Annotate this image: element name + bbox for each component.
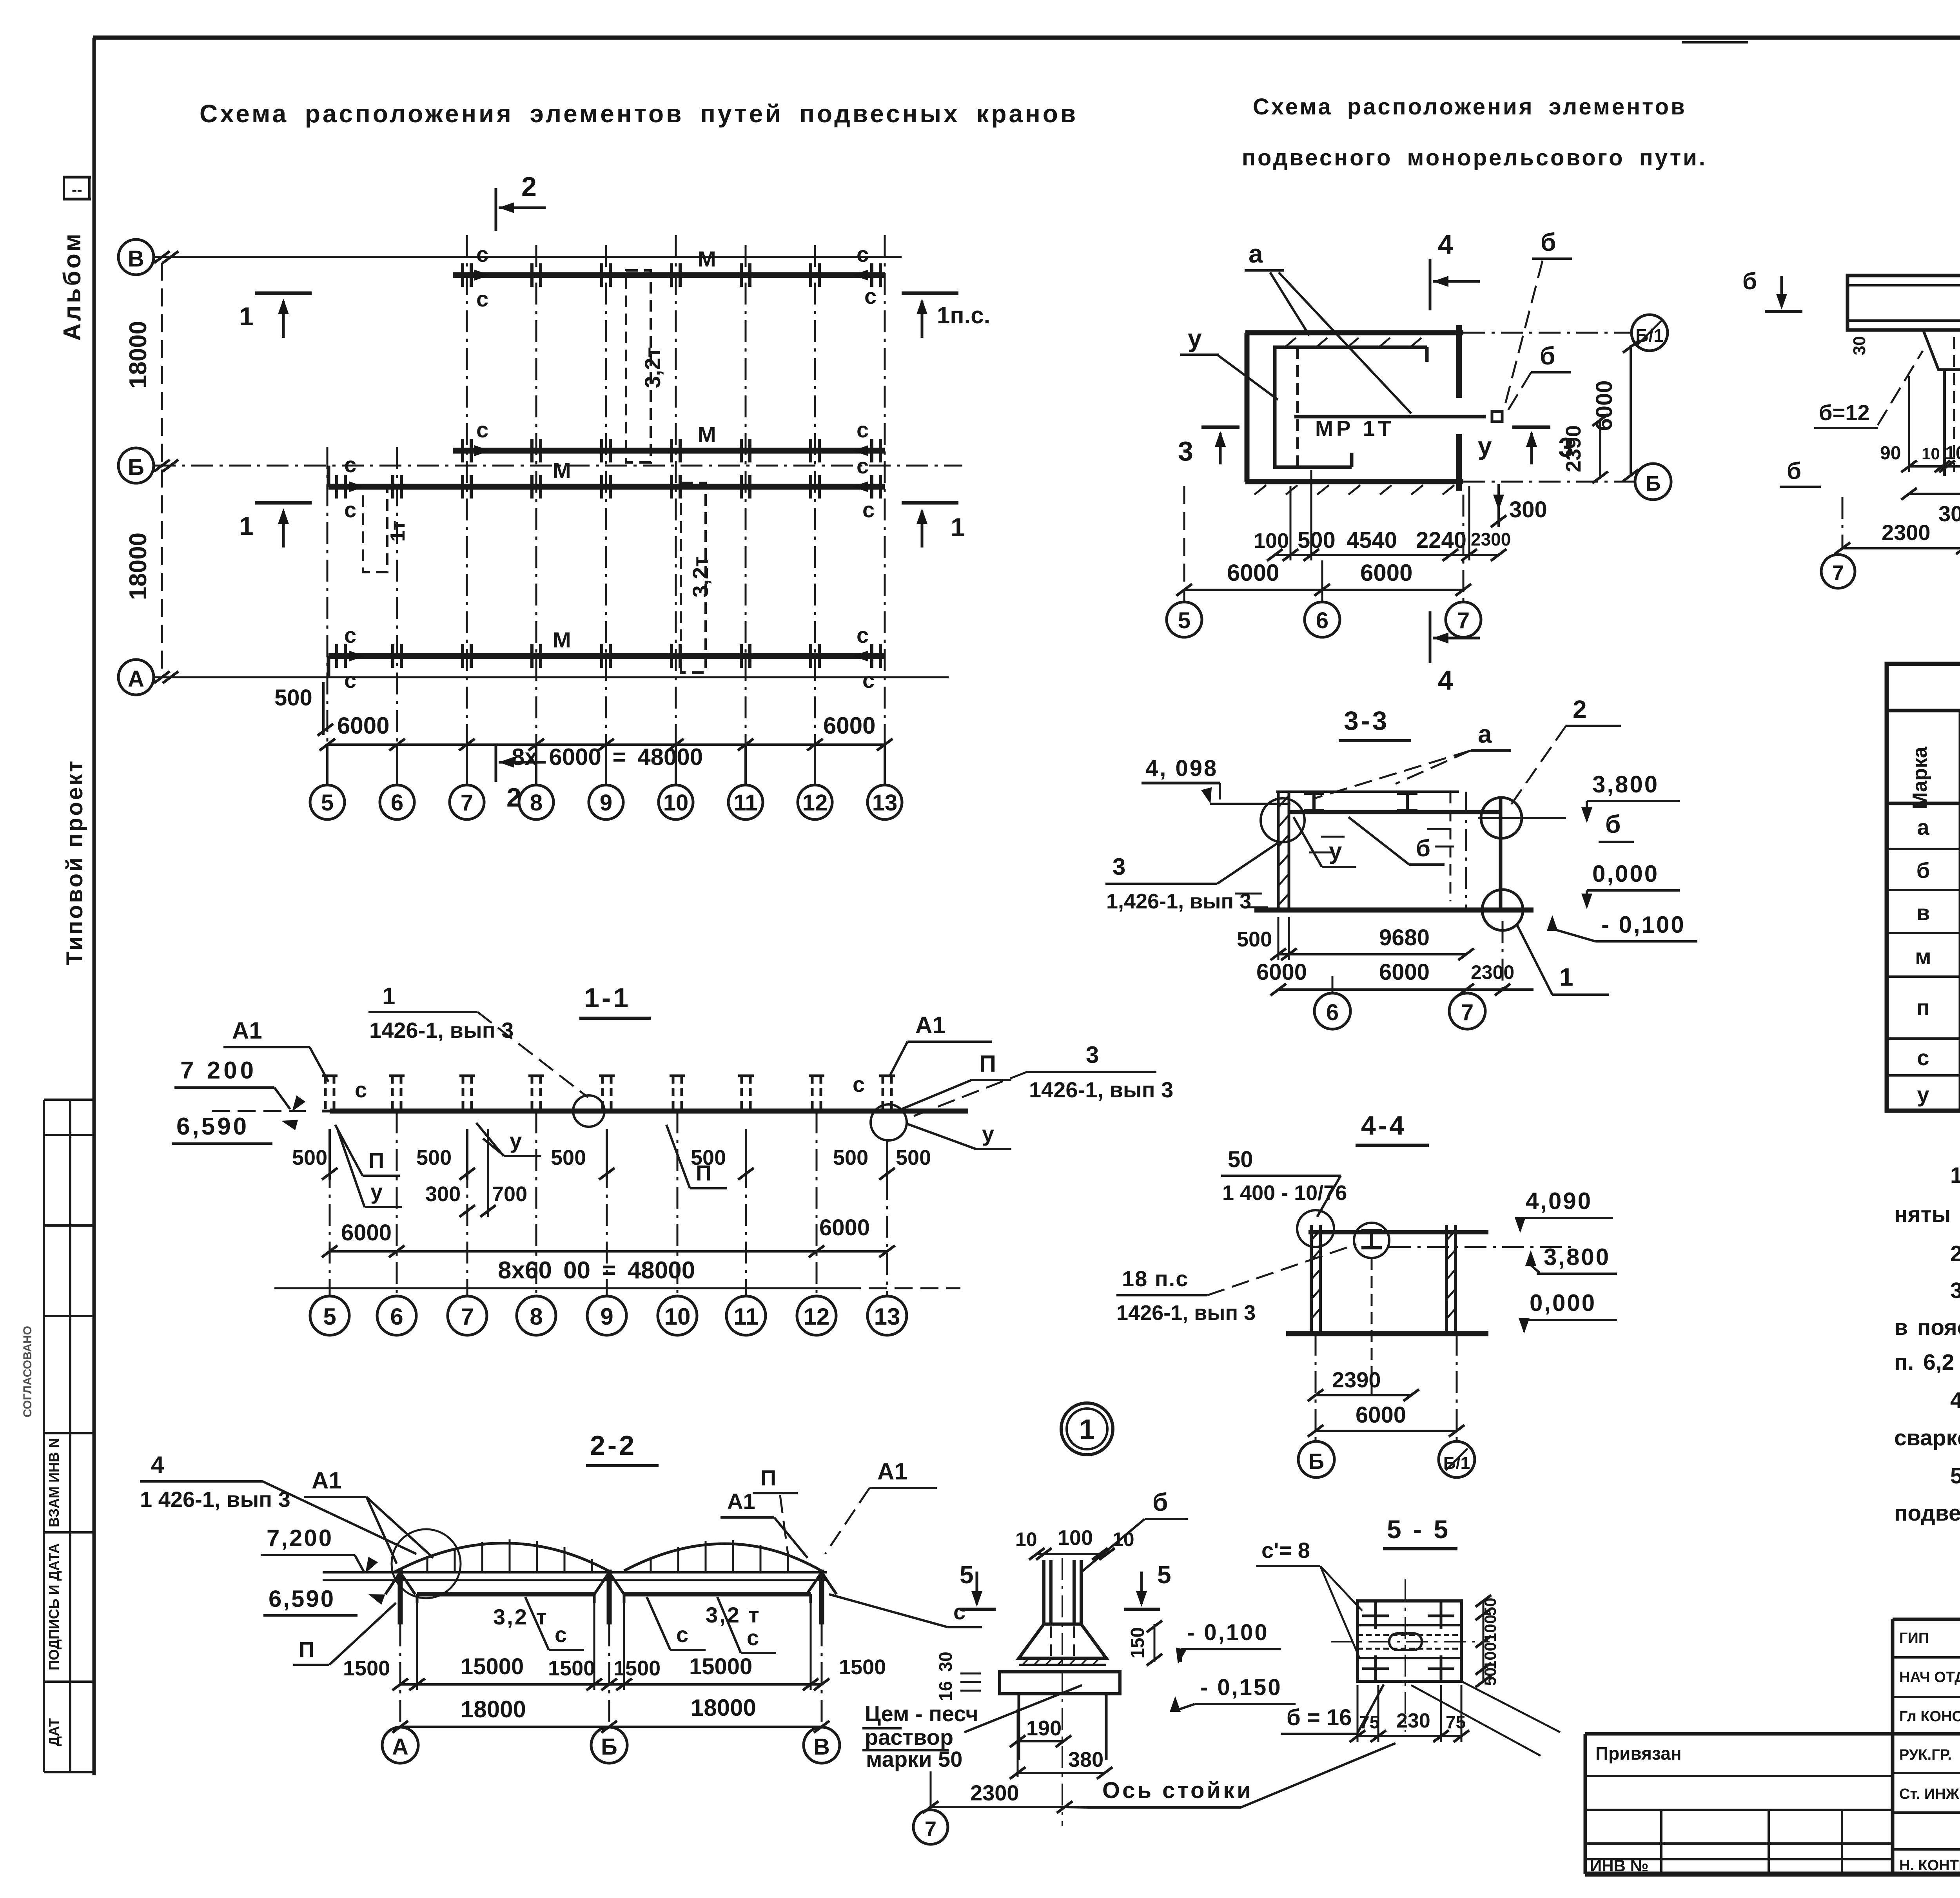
svg-text:Ст. ИНЖ: Ст. ИНЖ [1899, 1786, 1960, 1802]
svg-text:А1: А1 [232, 1017, 262, 1044]
svg-text:8: 8 [530, 1303, 543, 1330]
svg-text:8х 6000 = 48000: 8х 6000 = 48000 [512, 744, 703, 770]
svg-text:1: 1 [1559, 963, 1573, 991]
svg-text:6,590: 6,590 [269, 1586, 335, 1612]
svg-text:2390: 2390 [1332, 1367, 1381, 1392]
svg-text:1: 1 [382, 983, 395, 1009]
svg-text:16: 16 [935, 1681, 956, 1701]
svg-text:500: 500 [833, 1146, 868, 1169]
svg-text:4,090: 4,090 [1526, 1188, 1592, 1214]
svg-text:3. Указания по выбору сва: 3. Указания по выбору сварочных электрод… [1950, 1278, 1960, 1303]
svg-text:б: б [1541, 228, 1556, 256]
svg-text:9680: 9680 [1379, 925, 1430, 950]
svg-text:1 Сечения подвесных крановых: 1 Сечения подвесных крановых путей и мон… [1950, 1163, 1960, 1188]
svg-text:500: 500 [551, 1146, 586, 1169]
svg-text:10: 10 [1112, 1528, 1134, 1550]
svg-text:ИНВ №: ИНВ № [1590, 1856, 1648, 1875]
svg-text:Гл КОНСТР.: Гл КОНСТР. [1899, 1708, 1960, 1725]
svg-text:б = 16: б = 16 [1287, 1705, 1352, 1730]
svg-text:500: 500 [292, 1146, 327, 1169]
svg-text:с: с [344, 623, 356, 647]
svg-text:5 Отверстия в перегородках: 5 Отверстия в перегородках в местах прох… [1950, 1463, 1960, 1488]
svg-text:10: 10 [1015, 1528, 1037, 1550]
svg-text:2390: 2390 [1562, 425, 1585, 472]
svg-text:2: 2 [521, 171, 537, 202]
svg-text:подвесных кранов заделать: подвесных кранов заделать упругим матери… [1894, 1501, 1960, 1526]
svg-text:в: в [1916, 900, 1930, 925]
svg-text:6000: 6000 [1227, 560, 1279, 586]
svg-text:7: 7 [925, 1817, 936, 1841]
svg-text:В: В [128, 246, 144, 272]
svg-text:190: 190 [1026, 1717, 1062, 1740]
svg-text:ГИП: ГИП [1899, 1630, 1929, 1646]
svg-text:9: 9 [600, 1303, 613, 1330]
svg-text:2300: 2300 [1471, 961, 1514, 983]
svg-text:М: М [553, 458, 571, 483]
svg-text:Схема расположения элементов: Схема расположения элементов путей подве… [200, 100, 1078, 128]
svg-text:с: с [853, 1072, 865, 1097]
svg-text:230: 230 [1396, 1709, 1430, 1732]
svg-text:Б: Б [601, 1734, 617, 1760]
svg-text:А1: А1 [877, 1458, 907, 1485]
svg-text:7: 7 [1457, 608, 1470, 633]
svg-text:3: 3 [1112, 854, 1125, 880]
svg-text:1п.с.: 1п.с. [937, 302, 990, 328]
svg-text:1-1: 1-1 [584, 983, 631, 1013]
svg-text:П: П [368, 1148, 384, 1173]
svg-text:300: 300 [1509, 497, 1547, 522]
svg-text:3,800: 3,800 [1592, 771, 1659, 798]
svg-text:12: 12 [802, 790, 828, 816]
svg-text:2300: 2300 [1882, 520, 1931, 545]
svg-text:6000: 6000 [819, 1215, 870, 1240]
svg-text:в пояснительной записке: в пояснительной записке серии 1,426-1, в… [1894, 1315, 1960, 1340]
svg-text:- 0,100: - 0,100 [1601, 912, 1686, 938]
svg-text:б: б [1605, 810, 1621, 838]
svg-text:- 0,150: - 0,150 [1200, 1675, 1282, 1700]
svg-text:Привязан: Привязан [1595, 1743, 1682, 1764]
svg-text:500: 500 [1298, 528, 1336, 553]
svg-text:7: 7 [1832, 561, 1844, 585]
svg-text:Б: Б [1308, 1449, 1324, 1474]
svg-text:П: П [760, 1465, 776, 1490]
svg-text:4 Заводские соединения - сва: 4 Заводские соединения - сварные, монтаж… [1950, 1388, 1960, 1413]
svg-text:7: 7 [461, 1303, 474, 1330]
svg-text:6: 6 [1326, 1000, 1339, 1025]
svg-text:5: 5 [960, 1561, 974, 1589]
svg-text:с: с [953, 1599, 965, 1624]
svg-text:8х60 00 = 48000: 8х60 00 = 48000 [498, 1257, 695, 1284]
svg-text:подвесного монорельсового пу: подвесного монорельсового пути. [1242, 145, 1707, 170]
svg-text:500: 500 [274, 685, 312, 711]
svg-text:А1: А1 [727, 1489, 755, 1514]
svg-text:Цем - песч: Цем - песч [865, 1701, 978, 1726]
svg-text:50: 50 [1228, 1147, 1253, 1172]
svg-text:1500: 1500 [548, 1657, 595, 1680]
svg-text:А1: А1 [915, 1012, 946, 1038]
svg-text:б: б [1540, 342, 1555, 370]
svg-text:с: с [862, 497, 875, 522]
svg-text:6,590: 6,590 [176, 1113, 249, 1140]
svg-text:1500: 1500 [343, 1657, 390, 1680]
svg-text:11: 11 [733, 1303, 758, 1330]
svg-text:15000: 15000 [461, 1654, 524, 1679]
svg-text:с: с [676, 1622, 688, 1647]
svg-text:с: с [344, 668, 356, 692]
svg-text:380: 380 [1068, 1748, 1103, 1771]
svg-text:1500: 1500 [839, 1655, 886, 1679]
svg-text:7 200: 7 200 [180, 1057, 257, 1084]
svg-text:5 - 5: 5 - 5 [1387, 1515, 1450, 1544]
svg-text:1,426-1, вып 3: 1,426-1, вып 3 [1106, 890, 1251, 913]
svg-text:НАЧ ОТД.: НАЧ ОТД. [1899, 1669, 1960, 1686]
svg-text:2-2: 2-2 [590, 1430, 637, 1461]
svg-text:М: М [553, 627, 571, 652]
svg-text:с: с [476, 286, 488, 311]
svg-text:с: с [355, 1077, 367, 1102]
svg-text:7,200: 7,200 [267, 1525, 333, 1551]
svg-text:ПОДПИСЬ И ДАТА: ПОДПИСЬ И ДАТА [46, 1543, 62, 1670]
svg-text:у: у [370, 1179, 383, 1204]
svg-text:18000: 18000 [461, 1696, 526, 1722]
svg-text:марки 50: марки 50 [866, 1747, 962, 1771]
svg-text:а: а [1478, 720, 1492, 748]
svg-text:15000: 15000 [689, 1654, 752, 1679]
svg-text:12: 12 [804, 1303, 830, 1330]
svg-text:4: 4 [1438, 665, 1453, 696]
svg-text:с: с [344, 452, 356, 477]
svg-text:1т: 1т [387, 520, 409, 542]
svg-text:18000: 18000 [691, 1695, 756, 1721]
svg-text:150: 150 [1127, 1627, 1148, 1659]
svg-text:2: 2 [1573, 695, 1587, 723]
svg-text:30: 30 [1850, 336, 1869, 355]
svg-text:1426-1, вып 3: 1426-1, вып 3 [1116, 1301, 1256, 1325]
svg-text:а: а [1249, 239, 1263, 268]
svg-text:Альбом: Альбом [59, 231, 86, 341]
svg-text:с: с [1917, 1045, 1929, 1070]
svg-text:7: 7 [461, 790, 473, 816]
svg-text:б: б [1916, 858, 1930, 883]
svg-text:А1: А1 [312, 1467, 342, 1494]
svg-text:4540: 4540 [1347, 528, 1397, 553]
svg-text:с: с [857, 623, 869, 647]
svg-text:м: м [1915, 944, 1931, 969]
svg-text:с: с [862, 668, 875, 692]
svg-text:б: б [1787, 458, 1801, 484]
svg-text:10: 10 [663, 790, 689, 816]
svg-text:5: 5 [1157, 1561, 1171, 1589]
svg-text:3,800: 3,800 [1544, 1244, 1610, 1270]
svg-text:п: п [1916, 995, 1930, 1020]
svg-text:МР 1Т: МР 1Т [1315, 416, 1394, 441]
svg-text:М: М [698, 247, 716, 271]
svg-text:3,2 т: 3,2 т [493, 1604, 548, 1629]
svg-text:у: у [1917, 1082, 1929, 1107]
svg-text:18 п.с: 18 п.с [1122, 1266, 1189, 1291]
svg-text:8: 8 [530, 790, 543, 816]
svg-text:раствор: раствор [865, 1725, 953, 1749]
svg-text:Схема расположения элементов: Схема расположения элементов [1253, 94, 1687, 120]
svg-text:100: 100 [1945, 443, 1960, 464]
svg-text:а: а [1917, 815, 1929, 839]
svg-text:3,2т: 3,2т [640, 347, 665, 388]
svg-text:Б: Б [128, 455, 144, 480]
svg-text:100: 100 [1481, 1642, 1499, 1670]
svg-text:Типовой проект: Типовой проект [62, 759, 87, 965]
svg-text:с: с [857, 242, 869, 266]
svg-text:10: 10 [1922, 444, 1940, 463]
svg-text:2300: 2300 [970, 1780, 1019, 1805]
svg-text:ДАТ: ДАТ [46, 1718, 62, 1746]
svg-text:18000: 18000 [125, 321, 152, 388]
svg-text:5: 5 [323, 1303, 336, 1330]
svg-text:0,000: 0,000 [1530, 1290, 1596, 1316]
svg-text:6: 6 [390, 1303, 403, 1330]
svg-text:Марка: Марка [1909, 746, 1931, 809]
svg-text:В: В [813, 1734, 830, 1760]
svg-text:с: с [476, 417, 488, 442]
svg-text:6: 6 [391, 790, 403, 816]
svg-text:у: у [510, 1128, 522, 1153]
svg-text:300: 300 [1938, 501, 1960, 526]
svg-text:сварке: сварке [1894, 1425, 1960, 1450]
svg-text:7: 7 [1461, 1000, 1474, 1025]
svg-text:1: 1 [239, 302, 254, 331]
svg-text:1 400 - 10/76: 1 400 - 10/76 [1222, 1181, 1347, 1205]
svg-text:с: с [555, 1622, 567, 1647]
svg-text:с: с [857, 453, 869, 478]
svg-text:с: с [747, 1625, 759, 1650]
svg-text:700: 700 [492, 1182, 527, 1206]
svg-text:5: 5 [321, 790, 334, 816]
svg-text:у: у [982, 1121, 994, 1146]
svg-text:50: 50 [1481, 1598, 1499, 1616]
svg-text:п. 6,2: п. 6,2 [1894, 1350, 1954, 1375]
svg-text:1 426-1, вып 3: 1 426-1, вып 3 [140, 1487, 290, 1512]
svg-text:1: 1 [239, 511, 254, 540]
svg-text:50: 50 [1481, 1668, 1499, 1686]
svg-text:1: 1 [951, 513, 965, 542]
svg-text:с: с [864, 284, 877, 308]
svg-text:3: 3 [1178, 436, 1193, 466]
svg-text:10: 10 [664, 1303, 691, 1330]
svg-text:б=12: б=12 [1819, 400, 1870, 425]
svg-text:13: 13 [874, 1303, 900, 1330]
svg-text:1426-1, вып 3: 1426-1, вып 3 [1029, 1077, 1173, 1102]
svg-text:А: А [128, 666, 144, 692]
svg-text:1500: 1500 [613, 1657, 661, 1680]
svg-text:с: с [857, 417, 869, 442]
svg-text:у: у [1329, 838, 1342, 864]
svg-text:М: М [698, 422, 716, 447]
svg-text:П: П [299, 1637, 314, 1662]
svg-text:6000: 6000 [337, 712, 389, 739]
svg-text:3,2т: 3,2т [688, 556, 713, 597]
svg-text:11: 11 [733, 790, 757, 816]
svg-text:9: 9 [600, 790, 612, 816]
svg-text:500: 500 [896, 1146, 931, 1169]
svg-text:- 0,100: - 0,100 [1187, 1620, 1269, 1645]
svg-text:3-3: 3-3 [1344, 706, 1389, 736]
svg-text:6000: 6000 [1256, 959, 1307, 985]
svg-text:75: 75 [1359, 1712, 1379, 1732]
svg-text:30: 30 [935, 1651, 956, 1671]
svg-text:13: 13 [872, 790, 898, 816]
svg-text:6000: 6000 [1356, 1402, 1406, 1428]
svg-text:б: б [1742, 268, 1757, 294]
svg-text:--: -- [72, 181, 82, 198]
svg-text:СОГЛАСОВАНО: СОГЛАСОВАНО [21, 1326, 34, 1418]
svg-text:с'= 8: с'= 8 [1261, 1538, 1310, 1563]
svg-text:6: 6 [1316, 608, 1328, 633]
svg-text:6000: 6000 [341, 1220, 392, 1245]
svg-text:1426-1, вып 3: 1426-1, вып 3 [369, 1018, 514, 1042]
svg-text:с: с [476, 242, 488, 266]
svg-text:с: с [344, 497, 356, 522]
svg-text:500: 500 [1237, 928, 1272, 951]
svg-text:Ось стойки: Ось стойки [1102, 1778, 1253, 1803]
svg-text:6000: 6000 [823, 712, 875, 739]
svg-text:2300: 2300 [1471, 529, 1511, 549]
svg-text:у: у [1188, 324, 1202, 352]
svg-text:6000: 6000 [1379, 959, 1430, 985]
svg-text:100: 100 [1058, 1526, 1093, 1550]
svg-text:100: 100 [1481, 1615, 1499, 1642]
svg-text:у: у [1478, 432, 1492, 460]
svg-text:1: 1 [1079, 1414, 1095, 1445]
svg-text:Б: Б [1646, 472, 1661, 495]
svg-text:РУК.ГР.: РУК.ГР. [1899, 1747, 1952, 1763]
svg-text:б: б [1152, 1488, 1168, 1516]
svg-text:П: П [979, 1051, 996, 1077]
svg-text:100: 100 [1254, 529, 1289, 553]
svg-text:5: 5 [1178, 608, 1191, 633]
svg-text:4-4: 4-4 [1361, 1111, 1406, 1140]
svg-text:300: 300 [425, 1182, 461, 1206]
svg-text:4: 4 [151, 1452, 164, 1478]
svg-text:Н. КОНТР: Н. КОНТР [1899, 1857, 1960, 1874]
svg-text:75: 75 [1446, 1712, 1466, 1732]
svg-text:2. Накладной элемент А1 по: 2. Накладной элемент А1 по серии 1 463-3… [1950, 1241, 1960, 1266]
svg-text:500: 500 [416, 1146, 452, 1169]
svg-text:3: 3 [1086, 1042, 1099, 1068]
svg-text:ВЗАМ ИНВ N: ВЗАМ ИНВ N [46, 1438, 62, 1527]
svg-text:18000: 18000 [125, 533, 152, 600]
svg-text:90: 90 [1880, 443, 1901, 464]
svg-text:500: 500 [691, 1146, 726, 1169]
svg-text:б: б [1416, 835, 1430, 861]
svg-text:4, 098: 4, 098 [1145, 756, 1218, 781]
svg-text:4: 4 [1438, 229, 1453, 260]
svg-text:0,000: 0,000 [1592, 861, 1659, 887]
svg-text:2240: 2240 [1416, 528, 1466, 553]
svg-text:3,2 т: 3,2 т [706, 1603, 761, 1627]
svg-text:няты по серии 1. 426-1, В: няты по серии 1. 426-1, Вып 3 [1894, 1202, 1960, 1227]
svg-text:6000: 6000 [1360, 560, 1412, 586]
svg-text:А: А [392, 1734, 408, 1760]
